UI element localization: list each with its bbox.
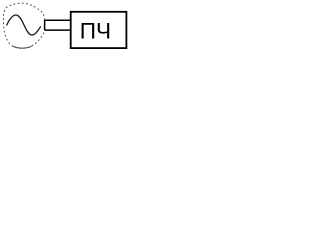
sine wave ~ (7, 15, 41, 35)
oval right closure (vertical at wire ends) (44, 20, 46, 30)
supply network oval (3, 3, 44, 48)
box ПЧ (frequency converter) (71, 12, 127, 48)
dark bottom arc fragment of oval (13, 46, 32, 48)
svg-text:ПЧ: ПЧ (80, 18, 111, 43)
wire bottom (45, 29, 71, 31)
wire top (45, 19, 71, 21)
